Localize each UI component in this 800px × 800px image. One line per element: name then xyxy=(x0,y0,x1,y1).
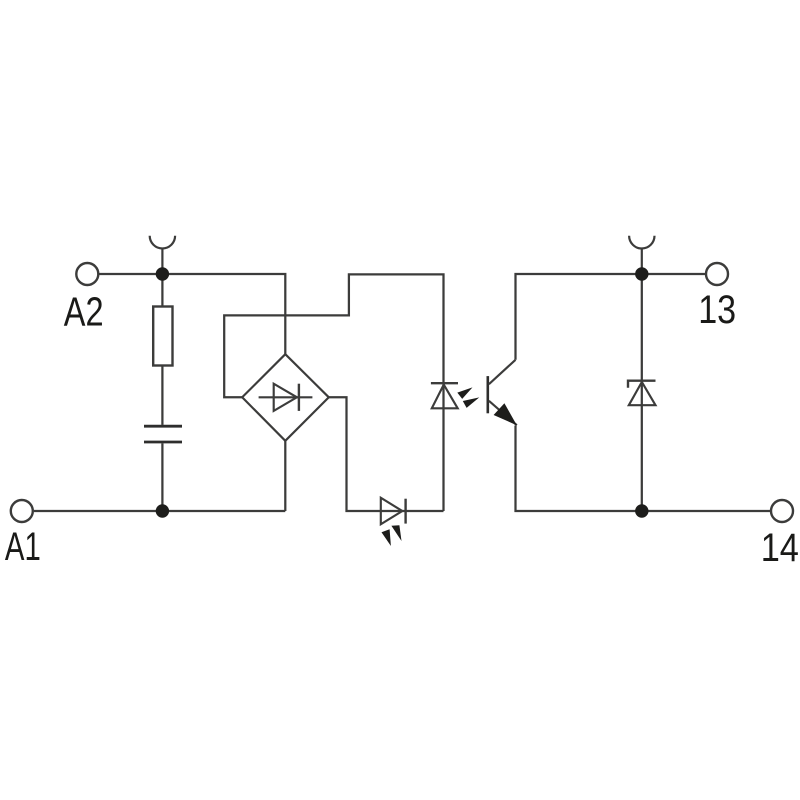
svg-text:A1: A1 xyxy=(5,525,41,569)
wire bridge bottom stub xyxy=(284,441,286,511)
svg-text:A2: A2 xyxy=(64,289,104,335)
bridge rectifier xyxy=(242,354,329,441)
wire bridge right corner to indicator LED and opto LED bottom xyxy=(329,397,444,511)
capacitor C1 xyxy=(144,426,182,442)
wire bridge left corner to optocoupler LED top xyxy=(224,274,443,511)
wire collector to top-right rail to terminal 13 xyxy=(516,274,706,360)
terminal 13 xyxy=(706,263,728,285)
plug-in connection point at A2 node xyxy=(150,236,175,274)
wire capacitor to bottom rail xyxy=(161,443,163,511)
optocoupler LED D2 xyxy=(431,383,479,408)
wire bottom-left rail A1 to bridge bottom xyxy=(34,510,285,512)
wire resistor to capacitor xyxy=(161,366,163,425)
svg-text:13: 13 xyxy=(698,288,736,332)
terminal A1 xyxy=(11,500,33,522)
node 14 junction xyxy=(635,504,648,517)
wire right diode branch vertical xyxy=(641,274,643,511)
terminal A2 xyxy=(76,263,98,285)
terminal 14 xyxy=(771,500,793,522)
indicator light arrows xyxy=(382,525,402,546)
node A2 junction xyxy=(156,267,169,280)
wire top-left rail A2 to bridge top xyxy=(98,274,285,354)
node A1 junction xyxy=(156,504,169,517)
indicator LED D1 xyxy=(381,498,406,546)
phototransistor Q1 xyxy=(488,360,517,425)
wire emitter down and bottom-right rail to terminal 14 xyxy=(516,426,771,512)
resistor R1 xyxy=(153,307,172,366)
plug-in connection point at 13 node xyxy=(629,236,654,274)
node 13 junction xyxy=(635,267,648,280)
svg-text:14: 14 xyxy=(761,526,799,570)
wire resistor branch top xyxy=(161,274,163,307)
opto light arrows xyxy=(457,387,479,408)
suppressor diode D3 xyxy=(628,381,656,406)
